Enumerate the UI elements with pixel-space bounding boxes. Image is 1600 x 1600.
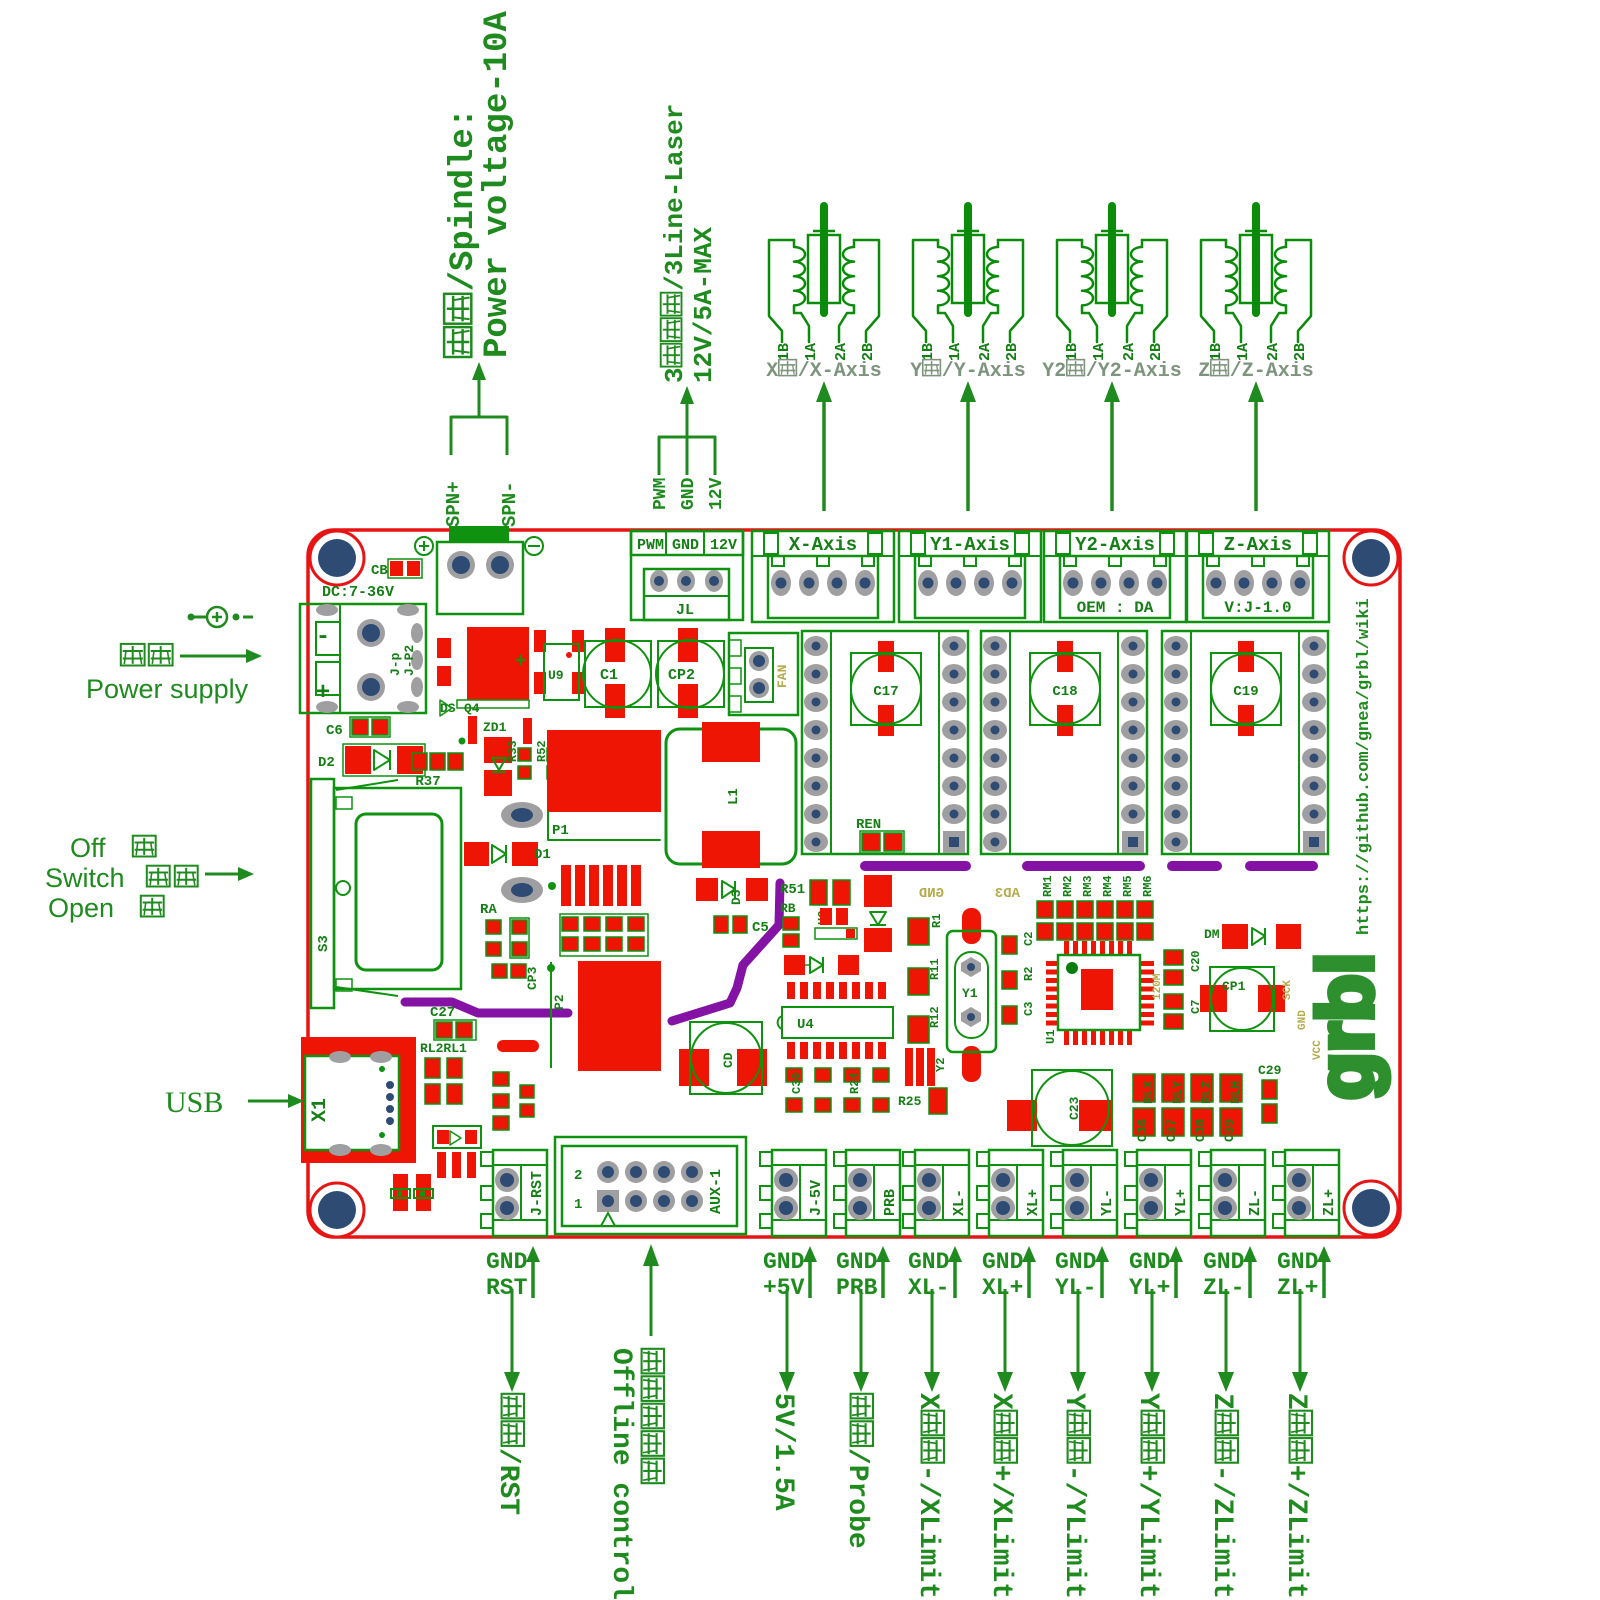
label X1	[309, 1098, 332, 1122]
label Open	[48, 893, 164, 923]
svg-text:2A: 2A	[833, 343, 850, 361]
svg-text:2A: 2A	[977, 343, 994, 361]
svg-text:2B: 2B	[1148, 343, 1165, 361]
label Z限位-/ZLimit- rotated	[1206, 1393, 1238, 1600]
svg-text:X: X	[766, 360, 778, 383]
pin label 2A motor Z	[1265, 343, 1282, 361]
capacitor C20	[1164, 950, 1203, 985]
svg-text:YL-: YL-	[1055, 1275, 1096, 1301]
svg-text:-/ZLimit-: -/ZLimit-	[1206, 1465, 1237, 1600]
pin label 2A motor X	[833, 343, 850, 361]
svg-text:1: 1	[574, 1197, 582, 1213]
pads B column	[493, 1072, 534, 1130]
transistor Q4	[457, 627, 529, 708]
svg-text:DC:7-36V: DC:7-36V	[322, 584, 394, 601]
svg-text:3: 3	[660, 367, 690, 383]
svg-text:1B: 1B	[920, 343, 937, 361]
label laser text line1	[660, 104, 690, 383]
wire line PRB	[853, 1289, 869, 1392]
svg-text:/Y2-Axis: /Y2-Axis	[1086, 360, 1182, 383]
label GND RST	[486, 1246, 540, 1301]
svg-text:RM3: RM3	[1081, 875, 1095, 897]
label FAN	[775, 665, 790, 688]
svg-text:C19: C19	[1233, 684, 1258, 700]
svg-text:X: X	[985, 1393, 1016, 1410]
svg-text:SCK: SCK	[1282, 980, 1294, 1000]
svg-text:Y: Y	[1132, 1393, 1163, 1410]
wire spindle bracket	[451, 417, 507, 455]
label USB	[165, 1086, 223, 1119]
ic U4 top pads	[787, 982, 886, 999]
label GND XLIM+	[982, 1246, 1036, 1301]
svg-text:+: +	[316, 680, 330, 707]
svg-text:R2: R2	[1022, 967, 1036, 981]
label AUX-1	[708, 1169, 725, 1214]
capacitor C27	[430, 1005, 476, 1040]
connector Y1-Axis header outline	[899, 531, 1041, 622]
svg-text:R37: R37	[415, 774, 440, 790]
pins XL-	[917, 1168, 941, 1220]
svg-text:R25: R25	[898, 1094, 922, 1109]
svg-text:Off: Off	[70, 833, 106, 863]
label 12V pin	[707, 477, 727, 510]
label X限位-/XLimit- rotated	[912, 1393, 944, 1600]
socket outline driver C17	[802, 631, 968, 854]
label XL-	[951, 1189, 968, 1216]
diode D1	[464, 842, 551, 866]
resistor network RM1-RM6	[1037, 875, 1155, 940]
svg-text:XL+: XL+	[1025, 1189, 1042, 1216]
svg-text:-/XLimit-: -/XLimit-	[912, 1465, 943, 1600]
pin label 1A motor Z	[1235, 343, 1252, 361]
svg-text:S3: S3	[316, 935, 332, 952]
pins PRB	[848, 1168, 872, 1220]
label GND	[672, 537, 699, 554]
wire purple bus 3	[1172, 861, 1217, 871]
svg-text:Z: Z	[1206, 1393, 1237, 1410]
resistor R1	[908, 914, 944, 945]
svg-text:YL-: YL-	[1099, 1189, 1116, 1216]
label Y限位+/YLimit+ rotated	[1132, 1393, 1164, 1600]
svg-text:C27: C27	[430, 1005, 455, 1021]
wire laser bracket	[659, 437, 715, 475]
wire purple bus 1	[865, 861, 966, 871]
wire line RST	[504, 1289, 520, 1392]
svg-text:ZL+: ZL+	[1277, 1275, 1318, 1301]
svg-text:C3: C3	[1022, 1002, 1036, 1016]
svg-text:+/ZLimit+: +/ZLimit+	[1280, 1465, 1311, 1600]
svg-text:C6: C6	[326, 723, 343, 739]
label spindle text line2	[479, 11, 517, 358]
diode D2	[318, 744, 425, 776]
label SPN-	[499, 481, 521, 527]
switch S3	[311, 779, 461, 1008]
pin label 1B motor Y2	[1064, 343, 1081, 361]
mounting hole top-left	[310, 531, 364, 585]
diode DL	[784, 955, 859, 975]
svg-text:AD3: AD3	[995, 886, 1020, 902]
symbol minus mark	[525, 537, 543, 555]
power module P1	[547, 730, 661, 840]
svg-text:RST: RST	[486, 1275, 528, 1301]
svg-text:/Spindle:: /Spindle:	[445, 108, 483, 292]
svg-text:Power voltage-10A: Power voltage-10A	[479, 11, 517, 358]
svg-text:Z-Axis: Z-Axis	[1224, 534, 1292, 556]
label GND XLIM-	[908, 1246, 962, 1301]
svg-text:+/XLimit+: +/XLimit+	[985, 1465, 1016, 1600]
label 2	[574, 1168, 582, 1184]
pads J-P corners	[316, 604, 423, 713]
svg-text:R11: R11	[928, 958, 942, 980]
svg-text:-: -	[316, 624, 330, 651]
svg-text:J-RST: J-RST	[529, 1171, 546, 1216]
pins JL	[650, 570, 723, 592]
svg-text:Z: Z	[1198, 360, 1210, 383]
svg-text:GND: GND	[836, 1249, 877, 1275]
regulator U9	[534, 630, 584, 700]
pads X1	[329, 1051, 394, 1156]
svg-text:GND: GND	[672, 537, 699, 554]
label XL+	[1025, 1189, 1042, 1216]
svg-text:5V/1.5A: 5V/1.5A	[767, 1393, 798, 1511]
symbol plus mark	[415, 537, 433, 555]
mounting hole top-right	[1344, 531, 1398, 585]
svg-text:R24: R24	[848, 1072, 862, 1094]
connector PRB outline	[834, 1150, 900, 1236]
svg-text:C23: C23	[1067, 1096, 1082, 1120]
label 1	[574, 1197, 582, 1213]
terminal SPN body	[437, 542, 523, 614]
label GND YLIM+	[1129, 1246, 1183, 1301]
svg-text:2B: 2B	[1004, 343, 1021, 361]
capacitor C2	[1002, 932, 1036, 954]
label J-p	[388, 652, 403, 676]
svg-text:GND: GND	[1129, 1249, 1170, 1275]
wire line XLIM-	[924, 1289, 940, 1392]
svg-text:GND: GND	[486, 1249, 527, 1275]
svg-text:12V: 12V	[710, 537, 737, 554]
pin label 2B motor Y	[1004, 343, 1021, 361]
pads left of Q4	[437, 638, 452, 716]
pin label 2A motor Y2	[1121, 343, 1138, 361]
pins YL-	[1065, 1168, 1089, 1220]
mounting hole bottom-right	[1344, 1181, 1398, 1235]
label Q4	[464, 701, 480, 716]
resistor RA	[480, 902, 529, 958]
ic U4 body	[778, 1007, 893, 1038]
svg-text:GND: GND	[1055, 1249, 1096, 1275]
svg-text:Y1: Y1	[962, 986, 978, 1001]
svg-text:+/YLimit+: +/YLimit+	[1132, 1465, 1163, 1600]
svg-text:PWM: PWM	[651, 478, 671, 510]
wire arrow to laser label	[680, 386, 694, 437]
wire purple bus 2	[1027, 861, 1140, 871]
connector XL+ outline	[977, 1150, 1043, 1236]
label offline chinese	[642, 1349, 664, 1483]
svg-text:ZL-: ZL-	[1247, 1189, 1264, 1216]
svg-text:/RST: /RST	[492, 1448, 523, 1515]
svg-text:C29: C29	[1258, 1063, 1282, 1078]
svg-text:Y1-Axis: Y1-Axis	[930, 534, 1010, 556]
stepper motor Z	[1201, 206, 1311, 342]
svg-text:GND: GND	[919, 886, 944, 902]
label laser text line2	[689, 227, 719, 383]
svg-text:Y2: Y2	[934, 1058, 948, 1072]
resistor R11	[908, 958, 942, 995]
label PWM pin	[651, 478, 671, 510]
svg-text:L1: L1	[726, 788, 742, 805]
label Z轴/Z-Axis	[1198, 360, 1314, 383]
svg-text:C20: C20	[1189, 950, 1203, 972]
connector FAN	[729, 633, 798, 715]
svg-text:2B: 2B	[860, 343, 877, 361]
label L1	[726, 788, 742, 805]
label CB	[371, 559, 422, 579]
capacitor C18	[1030, 641, 1100, 736]
svg-text:CP1: CP1	[1222, 979, 1246, 994]
svg-text:XL-: XL-	[908, 1275, 949, 1301]
resistor R12	[908, 1006, 942, 1043]
wire purple trace center	[672, 883, 780, 1021]
svg-text:RM5: RM5	[1121, 875, 1135, 897]
svg-text:ZL+: ZL+	[1321, 1189, 1338, 1216]
svg-text:RM6: RM6	[1141, 875, 1155, 897]
capacitor C5	[714, 916, 769, 936]
svg-text:+5V: +5V	[763, 1275, 805, 1301]
diode DM	[1204, 924, 1301, 949]
svg-text:P1: P1	[552, 823, 569, 839]
label Y2-Axis	[1075, 534, 1155, 556]
pin label 2B motor Z	[1292, 343, 1309, 361]
wire arrow motor Z	[1248, 381, 1264, 511]
pads C30 R24	[786, 1068, 889, 1112]
pins Y1-Axis	[918, 570, 1022, 596]
pin label 2B motor Y2	[1148, 343, 1165, 361]
svg-text:Y2: Y2	[1042, 360, 1066, 383]
pins ZL-	[1213, 1168, 1237, 1220]
svg-text:2A: 2A	[1121, 343, 1138, 361]
svg-text:RL2RL1: RL2RL1	[420, 1041, 467, 1056]
svg-text:RM4: RM4	[1101, 875, 1115, 897]
label GND PRB	[836, 1246, 890, 1301]
pad P2 hole	[501, 877, 556, 903]
wire line ZLIM+	[1292, 1289, 1308, 1392]
wire arrow motor Y	[960, 381, 976, 511]
pads below X1	[391, 1174, 433, 1211]
svg-text:1B: 1B	[776, 343, 793, 361]
svg-text:FAN: FAN	[775, 665, 790, 688]
terminal SPN block cap	[449, 526, 509, 542]
label YL+	[1173, 1189, 1190, 1216]
label Y1-Axis	[930, 534, 1010, 556]
svg-text:2A: 2A	[1265, 343, 1282, 361]
label power chinese	[121, 644, 173, 666]
resistor R2	[1002, 967, 1036, 989]
crystal Y1	[947, 908, 996, 1082]
stepper motor Y	[913, 206, 1023, 342]
resistor RB	[780, 901, 799, 947]
svg-text:https://github.com/gnea/grbl/w: https://github.com/gnea/grbl/wiki	[1355, 598, 1374, 935]
pin label 1B motor Z	[1208, 343, 1225, 361]
socket pads driver C19	[1164, 636, 1326, 853]
capacitor CP2	[656, 628, 724, 718]
wire arrow usb	[248, 1094, 304, 1108]
connector ZL- outline	[1199, 1150, 1265, 1236]
diode D3	[696, 878, 768, 905]
svg-text:ZL-: ZL-	[1203, 1275, 1244, 1301]
label Y限位-/YLimit- rotated	[1058, 1393, 1090, 1600]
socket outline driver C18	[981, 631, 1147, 854]
stepper motor Y2	[1057, 206, 1167, 342]
resistors RLX RLY RLZ RLH	[1133, 1074, 1243, 1142]
svg-text:1A: 1A	[1235, 343, 1252, 361]
wire line YLIM+	[1144, 1289, 1160, 1392]
label AD3 mirrored	[995, 886, 1020, 902]
svg-text:GND: GND	[908, 1249, 949, 1275]
label minus	[316, 624, 330, 651]
connector YL+ outline	[1125, 1150, 1191, 1236]
svg-text:C2: C2	[1022, 932, 1036, 946]
svg-text:1A: 1A	[803, 343, 820, 361]
capacitor CP3	[492, 964, 540, 990]
svg-text:X1: X1	[309, 1098, 332, 1122]
svg-text:/Probe: /Probe	[841, 1448, 872, 1549]
svg-text:RLH: RLH	[1228, 1081, 1243, 1104]
svg-text:GND: GND	[1277, 1249, 1318, 1275]
svg-text:/Y-Axis: /Y-Axis	[942, 360, 1026, 383]
connector J-5V outline	[760, 1150, 826, 1236]
svg-text:Y: Y	[1058, 1393, 1089, 1410]
pins XL+	[991, 1168, 1015, 1220]
label Off	[70, 833, 156, 863]
label DC:7-36V	[322, 584, 394, 601]
wire arrow to spindle label	[472, 362, 486, 417]
svg-text:grbl: grbl	[1301, 953, 1389, 1100]
svg-text:R51: R51	[780, 882, 805, 898]
pin label 1B motor X	[776, 343, 793, 361]
pads under diode	[437, 1152, 476, 1178]
svg-text:ZD1: ZD1	[483, 720, 507, 735]
wire purple trace left	[405, 1002, 568, 1013]
svg-text:2: 2	[574, 1168, 582, 1184]
wire arrow switch	[205, 867, 254, 881]
svg-text:GND: GND	[763, 1249, 804, 1275]
label offline english	[605, 1348, 636, 1600]
resistor R33	[506, 740, 531, 779]
svg-text:1A: 1A	[1091, 343, 1108, 361]
label 12V	[710, 537, 737, 554]
inductor L1	[666, 722, 796, 868]
label Z-Axis	[1224, 534, 1292, 556]
label GND mirrored	[919, 886, 944, 902]
diode D4	[864, 875, 892, 952]
PCB board outline	[308, 530, 1400, 1237]
svg-text:CD: CD	[721, 1052, 736, 1068]
label GND pin	[679, 477, 699, 510]
label Switch	[45, 863, 198, 893]
label OEM : DA	[1077, 599, 1154, 617]
svg-text:JL: JL	[676, 602, 694, 619]
label 5V/1.5A rotated	[767, 1393, 798, 1511]
label plus	[316, 680, 330, 707]
svg-text:DM: DM	[1204, 927, 1220, 942]
diode ZD1	[459, 716, 533, 796]
svg-text:PRB: PRB	[836, 1275, 878, 1301]
svg-text:J-P2: J-P2	[402, 645, 417, 676]
svg-text:1B: 1B	[1208, 343, 1225, 361]
capacitor C7	[1164, 994, 1203, 1029]
label REN	[856, 817, 904, 853]
pad P1 hole	[501, 802, 543, 828]
svg-text:D1: D1	[534, 847, 551, 863]
svg-text:Y2-Axis: Y2-Axis	[1075, 534, 1155, 556]
connector Z-Axis header outline	[1187, 531, 1329, 622]
svg-text:CB: CB	[371, 563, 388, 579]
svg-text:XL-: XL-	[951, 1189, 968, 1216]
pin label 2B motor X	[860, 343, 877, 361]
capacitor C1	[583, 628, 651, 718]
pads R3 CC R4 C4	[560, 914, 648, 956]
svg-text:Open: Open	[48, 893, 114, 923]
label PWM	[637, 537, 664, 554]
socket outline driver C19	[1162, 631, 1328, 854]
svg-text:/3Line-Laser: /3Line-Laser	[660, 104, 690, 291]
svg-text:YL+: YL+	[1173, 1189, 1190, 1216]
svg-text:C39: C39	[1222, 1118, 1237, 1142]
svg-text:X-Axis: X-Axis	[789, 534, 857, 556]
svg-text:J-p: J-p	[388, 652, 403, 676]
pin label 1A motor X	[803, 343, 820, 361]
label ZL+	[1321, 1189, 1338, 1216]
pins Y2-Axis	[1063, 570, 1167, 596]
crystal Y2	[905, 1048, 948, 1086]
connector AUX-1 outline	[555, 1137, 746, 1234]
svg-text:Offline controller: Offline controller	[605, 1348, 636, 1600]
svg-text:/Z-Axis: /Z-Axis	[1230, 360, 1314, 383]
label X-Axis	[789, 534, 857, 556]
label J-P2	[402, 645, 417, 676]
svg-text:J-5V: J-5V	[808, 1180, 825, 1216]
svg-text:RLX: RLX	[1141, 1080, 1156, 1104]
svg-text:U4: U4	[797, 1017, 814, 1033]
capacitor C3	[1002, 1002, 1036, 1024]
svg-text:CP2: CP2	[668, 667, 695, 684]
pins J-RST	[495, 1168, 519, 1220]
svg-text:GND: GND	[982, 1249, 1023, 1275]
svg-text:Y: Y	[910, 360, 922, 383]
resistor R25	[898, 1088, 947, 1114]
socket pads driver C17	[804, 636, 966, 853]
ic U2	[815, 908, 857, 939]
diode DU	[433, 1126, 481, 1148]
label GND2	[1297, 1010, 1309, 1030]
svg-text:120M: 120M	[1152, 973, 1164, 1000]
resistor R51	[780, 880, 850, 905]
ic U4 bottom pads	[787, 1042, 886, 1059]
connector J-RST outline	[481, 1150, 547, 1236]
pins J-5V	[774, 1168, 798, 1220]
label Y轴/Y-Axis	[910, 360, 1026, 383]
pin label 1B motor Y	[920, 343, 937, 361]
svg-text:2B: 2B	[1292, 343, 1309, 361]
capacitor C29	[1258, 1063, 1282, 1123]
label PRB	[882, 1189, 899, 1216]
capacitor C19	[1211, 641, 1281, 736]
svg-text:CP3: CP3	[525, 966, 540, 990]
capacitor C23	[1007, 1070, 1112, 1146]
connector X-Axis header outline	[752, 531, 894, 622]
resistors RL2 RL1	[420, 1041, 467, 1104]
